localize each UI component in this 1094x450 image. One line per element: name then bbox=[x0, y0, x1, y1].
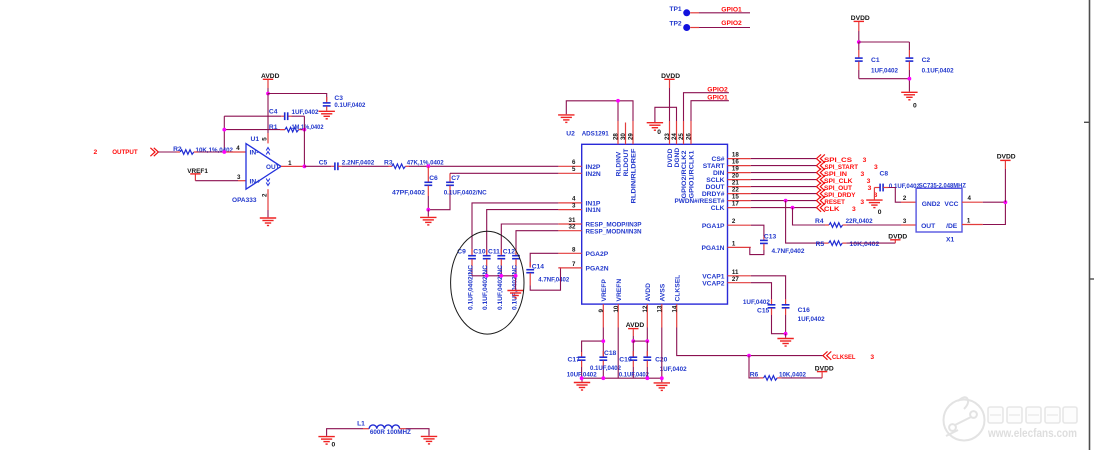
wire net SPI_START bbox=[751, 161, 878, 170]
node R1 left junction bbox=[222, 128, 226, 132]
wire R2 to op-amp IN- bbox=[194, 151, 246, 153]
svg-text:RESET: RESET bbox=[824, 199, 845, 206]
capacitor C5 bbox=[319, 159, 375, 170]
svg-text:C1: C1 bbox=[871, 57, 880, 64]
svg-text:0.1UF,0402/NC: 0.1UF,0402/NC bbox=[444, 189, 487, 196]
svg-text:R5: R5 bbox=[816, 241, 825, 248]
svg-text:3: 3 bbox=[870, 354, 874, 361]
wire R3 to IC pin 6 bbox=[405, 165, 558, 167]
sheet border line bbox=[1084, 0, 1094, 450]
svg-text:15: 15 bbox=[732, 194, 739, 201]
test point TP2 bbox=[669, 21, 699, 32]
wire RESP_MODN row to C12 bbox=[516, 231, 558, 255]
wire C5 to R3 bbox=[338, 165, 392, 167]
capacitor C16 bbox=[782, 305, 825, 334]
wire GPIO2 net above U2 bbox=[684, 87, 729, 122]
svg-text:DRDY#: DRDY# bbox=[702, 191, 725, 198]
svg-text:AVSS: AVSS bbox=[659, 283, 666, 301]
wire IN1P row to C9 bbox=[472, 203, 558, 255]
svg-text:C14: C14 bbox=[532, 263, 545, 270]
U2 bottom pin names rotated bbox=[601, 275, 681, 302]
power VREF1 bbox=[187, 168, 208, 181]
svg-text:IN-: IN- bbox=[250, 150, 259, 157]
svg-text:17: 17 bbox=[732, 201, 739, 208]
wire feedback vertical bbox=[223, 116, 225, 152]
capacitor C2 bbox=[906, 57, 954, 79]
svg-text:11: 11 bbox=[732, 269, 739, 276]
wire AVSS to rail bbox=[661, 328, 663, 379]
node R1 right junction bbox=[303, 128, 307, 132]
svg-text:13: 13 bbox=[657, 305, 664, 312]
svg-text:2: 2 bbox=[732, 218, 736, 225]
svg-text:10K,1%,0402: 10K,1%,0402 bbox=[196, 147, 234, 154]
svg-text:TP2: TP2 bbox=[669, 21, 682, 28]
svg-text:U2: U2 bbox=[566, 131, 575, 138]
node DVDD C1 junction bbox=[857, 40, 861, 44]
node rail C12 junction bbox=[514, 274, 518, 278]
capacitor C13 bbox=[760, 233, 805, 255]
svg-text:1UF,0402: 1UF,0402 bbox=[871, 68, 898, 75]
svg-text:SPI_IN: SPI_IN bbox=[824, 171, 847, 178]
svg-text:1UF,0402: 1UF,0402 bbox=[743, 299, 770, 306]
svg-text:C3: C3 bbox=[334, 95, 343, 102]
svg-text:2.2NF,0402: 2.2NF,0402 bbox=[342, 160, 375, 167]
power DVDD at R6 bbox=[815, 365, 834, 372]
svg-text:GPIO2/RCLK2: GPIO2/RCLK2 bbox=[681, 150, 688, 198]
svg-text:SPI_OUT: SPI_OUT bbox=[824, 185, 853, 192]
watermark elecfans logo bbox=[944, 397, 985, 440]
wire net RESET bbox=[751, 196, 865, 205]
svg-text:SPI_CLK: SPI_CLK bbox=[824, 178, 853, 185]
svg-text:DOUT: DOUT bbox=[706, 184, 726, 191]
svg-text:0.1UF,0402/NC: 0.1UF,0402/NC bbox=[468, 265, 475, 310]
svg-text:10K,0402: 10K,0402 bbox=[849, 241, 879, 248]
svg-text:CLK: CLK bbox=[824, 206, 840, 213]
svg-text:C12: C12 bbox=[503, 248, 516, 255]
wire AVDD supply vertical to op-amp pin 5 bbox=[267, 94, 269, 144]
svg-text:OUT: OUT bbox=[266, 164, 280, 171]
svg-text:4.7NF,0402: 4.7NF,0402 bbox=[538, 277, 569, 284]
wire OUTPUT to R2 bbox=[158, 151, 180, 153]
wire C1 C2 top rail bbox=[859, 42, 910, 58]
capacitor C1 bbox=[855, 57, 898, 79]
svg-text:32: 32 bbox=[569, 224, 576, 231]
node rail AVSS junction bbox=[660, 376, 664, 380]
svg-text:RLDINV: RLDINV bbox=[616, 151, 623, 176]
power AVDD bottom bbox=[626, 322, 645, 341]
node C6 C7 ground junction bbox=[426, 208, 430, 217]
svg-text:1: 1 bbox=[967, 217, 971, 224]
ground under AVSS bbox=[654, 383, 670, 391]
wire R4 to X1 OUT bbox=[843, 218, 917, 225]
svg-text:1: 1 bbox=[288, 160, 292, 167]
svg-text:3: 3 bbox=[874, 164, 878, 171]
svg-text:START: START bbox=[703, 163, 726, 170]
wire RESP_MODP row to C11 bbox=[501, 224, 558, 255]
svg-text:AVDD: AVDD bbox=[645, 283, 652, 302]
node C6 top junction bbox=[426, 164, 430, 168]
node X1 VCC junction bbox=[1004, 200, 1008, 204]
wire net SPI_DRDY bbox=[751, 189, 878, 198]
svg-text:26: 26 bbox=[686, 133, 693, 140]
wire C4 row bbox=[224, 115, 304, 117]
svg-text:RLDOUT: RLDOUT bbox=[623, 148, 630, 177]
ground left of rail bbox=[574, 383, 590, 391]
wire OUT to C5 bbox=[304, 165, 334, 167]
wire GPIO1 net above U2 bbox=[691, 94, 729, 121]
svg-text:SC735-2.048MHZ: SC735-2.048MHZ bbox=[919, 182, 966, 189]
svg-text:47PF,0402: 47PF,0402 bbox=[392, 189, 425, 196]
svg-text:27: 27 bbox=[732, 276, 739, 283]
svg-text:0: 0 bbox=[657, 129, 661, 136]
wire op-amp OUT bbox=[281, 160, 304, 167]
power DVDD above C1 C2 bbox=[851, 15, 870, 42]
svg-text:C7: C7 bbox=[451, 175, 460, 182]
svg-text:PGA1P: PGA1P bbox=[702, 223, 725, 230]
svg-text:2: 2 bbox=[94, 149, 98, 156]
wire net SPI_IN bbox=[751, 168, 865, 177]
svg-text:C13: C13 bbox=[764, 233, 777, 240]
ground L1 left bbox=[318, 437, 335, 449]
svg-text:www.elecfans.com: www.elecfans.com bbox=[987, 426, 1077, 440]
wire PGA1P to C13 bbox=[751, 225, 764, 240]
svg-text:6: 6 bbox=[572, 159, 576, 166]
wire C14 to PGA2N row bbox=[530, 268, 560, 290]
wire C13 to PGA1N bbox=[750, 247, 764, 254]
svg-text:RLDIN/RLDREF: RLDIN/RLDREF bbox=[631, 149, 638, 204]
wire R1 row bbox=[224, 129, 304, 131]
svg-text:VREFN: VREFN bbox=[616, 279, 623, 302]
wire VREF1 to op-amp IN+ bbox=[195, 174, 246, 181]
svg-text:SCLK: SCLK bbox=[706, 177, 724, 184]
svg-text:0: 0 bbox=[878, 209, 882, 216]
node C15 C16 ground junction bbox=[784, 332, 788, 338]
U2 left pin numbers bbox=[569, 159, 576, 268]
capacitor C17 bbox=[567, 357, 597, 379]
svg-text:RESP_MODN/IN3N: RESP_MODN/IN3N bbox=[586, 229, 642, 236]
watermark chinese characters bbox=[988, 407, 1077, 423]
wire net GPIO2 top bbox=[699, 20, 750, 28]
svg-text:R2: R2 bbox=[173, 146, 182, 153]
wire L1 left bbox=[327, 429, 369, 436]
svg-text:1UF,0402: 1UF,0402 bbox=[798, 316, 825, 323]
svg-text:9: 9 bbox=[598, 309, 605, 313]
svg-text:DVDD: DVDD bbox=[997, 153, 1016, 160]
node rail C11 junction bbox=[499, 274, 503, 278]
svg-text:CLKSEL: CLKSEL bbox=[832, 354, 856, 361]
svg-text:7: 7 bbox=[572, 261, 576, 268]
power DVDD top right bbox=[997, 153, 1016, 202]
wire CLKSEL net bbox=[677, 328, 875, 361]
node VREFP junction bbox=[601, 339, 605, 343]
wire feedback right vertical bbox=[303, 116, 305, 166]
node CLKSEL junction bbox=[747, 354, 751, 358]
svg-text:19: 19 bbox=[732, 166, 739, 173]
svg-text:IN+: IN+ bbox=[250, 179, 261, 186]
svg-text:/DE: /DE bbox=[946, 223, 958, 230]
U2 bottom pin numbers rotated bbox=[598, 305, 678, 312]
svg-text:OUT: OUT bbox=[921, 223, 936, 230]
resistor R5 bbox=[816, 241, 880, 248]
U2 top pin stubs bbox=[618, 121, 691, 144]
svg-text:16: 16 bbox=[732, 159, 739, 166]
wire net CLK bbox=[751, 203, 856, 212]
svg-text:5: 5 bbox=[572, 166, 576, 173]
off-page connector OUTPUT bbox=[94, 148, 159, 156]
svg-text:0.1UF,0402: 0.1UF,0402 bbox=[619, 372, 649, 379]
ground under C8 bbox=[866, 200, 882, 216]
svg-text:R3: R3 bbox=[384, 160, 393, 167]
capacitor C7 bbox=[428, 173, 487, 209]
ellipse highlight around C9-C12 bbox=[451, 231, 524, 334]
node AVDD junction bbox=[266, 92, 270, 96]
U2 left pin stubs bbox=[558, 166, 581, 268]
svg-text:CLKSEL: CLKSEL bbox=[674, 275, 681, 302]
node CLK junction bbox=[791, 206, 795, 210]
U2 top pin numbers rotated bbox=[613, 133, 693, 140]
node op-amp IN- junction bbox=[222, 145, 240, 154]
wire X1 /DE to DVDD bbox=[962, 202, 1005, 224]
svg-text:25: 25 bbox=[678, 133, 685, 140]
svg-text:4: 4 bbox=[968, 195, 972, 202]
U2 right pin stubs bbox=[728, 159, 751, 283]
svg-text:PGA2P: PGA2P bbox=[586, 251, 609, 258]
svg-text:14: 14 bbox=[671, 305, 678, 312]
svg-text:GPIO2: GPIO2 bbox=[707, 87, 728, 94]
svg-text:GPIO1: GPIO1 bbox=[721, 7, 742, 14]
resistor R4 bbox=[815, 218, 873, 227]
node rail C17 junction bbox=[580, 376, 584, 380]
watermark url text bbox=[987, 426, 1077, 440]
ground DGND bbox=[647, 123, 663, 136]
svg-text:5: 5 bbox=[262, 137, 269, 141]
svg-text:3: 3 bbox=[237, 174, 241, 181]
wire op-amp V- to ground bbox=[267, 189, 269, 217]
wire X1 VCC to DVDD bbox=[962, 195, 1005, 202]
wire net SPI_CLK bbox=[751, 175, 871, 184]
svg-text:DGND: DGND bbox=[674, 148, 681, 168]
svg-text:1M,1%,0402: 1M,1%,0402 bbox=[292, 124, 324, 131]
node C2 ground junction bbox=[908, 77, 912, 81]
wire RLD pins rail bbox=[566, 101, 633, 121]
svg-text:0.1UF,0402: 0.1UF,0402 bbox=[922, 68, 954, 75]
wire C1 C2 bottom rail bbox=[859, 79, 910, 92]
svg-text:C16: C16 bbox=[798, 307, 811, 314]
svg-text:600R 100MHZ: 600R 100MHZ bbox=[370, 429, 411, 436]
wire RESET to R5 bbox=[786, 201, 829, 244]
svg-text:28: 28 bbox=[613, 133, 620, 140]
oscillator X1 SC735 bbox=[916, 182, 966, 243]
svg-text:R1: R1 bbox=[269, 124, 278, 131]
svg-text:U1: U1 bbox=[251, 136, 260, 143]
resistor R3 bbox=[384, 160, 444, 169]
svg-text:DVDD: DVDD bbox=[667, 148, 674, 167]
svg-text:SPI_CS: SPI_CS bbox=[824, 157, 853, 164]
svg-text:R6: R6 bbox=[750, 372, 759, 379]
wire net SPI_CS bbox=[751, 154, 867, 163]
ground under C15 C16 bbox=[777, 339, 793, 347]
capacitor C4 bbox=[269, 109, 319, 121]
op-amp U1 OPA333 bbox=[232, 136, 281, 204]
svg-text:3: 3 bbox=[863, 157, 867, 164]
svg-text:L1: L1 bbox=[357, 420, 365, 427]
wire ground rail bottom bbox=[582, 378, 662, 382]
power DVDD at R5 bbox=[888, 234, 907, 241]
svg-text:4.7NF,0402: 4.7NF,0402 bbox=[772, 248, 805, 255]
wire C8 to X1 GND2 bbox=[889, 188, 917, 203]
svg-text:C8: C8 bbox=[880, 171, 889, 178]
IC U2 ADS1291 body bbox=[566, 131, 727, 305]
test point TP1 bbox=[669, 6, 699, 16]
svg-text:VCC: VCC bbox=[944, 201, 958, 208]
wire C8 left to ground bbox=[873, 188, 875, 200]
wire PGA2P row to C14 bbox=[530, 253, 558, 267]
capacitor C10 bbox=[473, 248, 490, 310]
U2 right pin names bbox=[675, 156, 726, 287]
wire VCAP2 to C15 bbox=[751, 283, 772, 305]
capacitor C11 bbox=[488, 248, 505, 310]
svg-text:22R,0402: 22R,0402 bbox=[846, 218, 873, 225]
svg-text:GPIO1/RCLK1: GPIO1/RCLK1 bbox=[689, 150, 696, 198]
resistor R1 bbox=[269, 124, 324, 132]
svg-text:IN2N: IN2N bbox=[586, 171, 601, 178]
svg-text:VREFP: VREFP bbox=[601, 279, 608, 302]
svg-text:3: 3 bbox=[903, 218, 907, 225]
svg-text:3: 3 bbox=[852, 206, 856, 213]
svg-text:C11: C11 bbox=[488, 248, 500, 255]
resistor R2 bbox=[173, 146, 233, 154]
svg-text:PGA2N: PGA2N bbox=[586, 266, 609, 273]
node OUT junction bbox=[303, 165, 307, 169]
U2 right pin numbers bbox=[732, 152, 739, 283]
svg-text:3: 3 bbox=[860, 199, 864, 206]
svg-text:3: 3 bbox=[868, 185, 872, 192]
node RESET junction bbox=[784, 199, 788, 203]
svg-text:24: 24 bbox=[671, 133, 678, 140]
svg-text:X1: X1 bbox=[946, 236, 954, 243]
svg-text:1: 1 bbox=[732, 240, 736, 247]
svg-text:0.1UF,0402: 0.1UF,0402 bbox=[334, 102, 365, 109]
wire net SPI_OUT bbox=[751, 182, 872, 191]
svg-text:DIN: DIN bbox=[713, 170, 725, 177]
svg-text:SPI_DRDY: SPI_DRDY bbox=[824, 192, 856, 199]
capacitor C12 bbox=[503, 248, 520, 310]
wire L1 right bbox=[400, 429, 429, 436]
svg-text:CLK: CLK bbox=[711, 205, 725, 212]
svg-text:1UF,0402: 1UF,0402 bbox=[292, 109, 319, 116]
svg-text:GPIO1: GPIO1 bbox=[707, 94, 728, 101]
svg-text:OPA333: OPA333 bbox=[232, 197, 257, 204]
wire C9-C12 common rail bbox=[472, 276, 516, 290]
svg-text:3: 3 bbox=[867, 178, 871, 185]
wire DGND pin to ground bbox=[655, 107, 677, 122]
svg-text:47K,1%,0402: 47K,1%,0402 bbox=[407, 160, 444, 167]
svg-text:C4: C4 bbox=[269, 109, 278, 116]
svg-text:23: 23 bbox=[664, 133, 671, 140]
inductor L1 bbox=[357, 420, 411, 436]
svg-text:0: 0 bbox=[332, 442, 336, 449]
svg-text:0.1UF,0402/NC: 0.1UF,0402/NC bbox=[482, 265, 489, 310]
svg-text:3: 3 bbox=[572, 202, 576, 209]
U2 bottom pin stubs bbox=[603, 304, 676, 327]
wire R5 to DVDD bbox=[842, 240, 895, 243]
wire VREFN to rail bbox=[617, 328, 619, 379]
node AVDD symbol junction bbox=[631, 339, 635, 343]
capacitor C14 bbox=[526, 263, 569, 285]
svg-text:C15: C15 bbox=[757, 307, 770, 314]
power AVDD (op-amp supply) bbox=[261, 73, 280, 94]
svg-text:0: 0 bbox=[913, 103, 917, 110]
svg-text:30: 30 bbox=[620, 133, 627, 140]
capacitor C18 bbox=[590, 350, 621, 378]
wire net GPIO1 top bbox=[699, 7, 750, 14]
svg-text:GPIO2: GPIO2 bbox=[721, 20, 742, 27]
svg-text:GND2: GND2 bbox=[922, 201, 941, 208]
node RLDINV junction bbox=[616, 99, 620, 103]
svg-text:AVDD: AVDD bbox=[626, 322, 645, 329]
svg-text:IN1N: IN1N bbox=[586, 207, 601, 214]
svg-text:C10: C10 bbox=[473, 248, 486, 255]
ground under C9-C12 rail bbox=[507, 291, 523, 299]
ground under C3 bbox=[319, 111, 335, 119]
power DVDD above U2 bbox=[661, 73, 680, 121]
ground RLD rail bbox=[558, 115, 574, 123]
svg-text:CS#: CS# bbox=[711, 156, 724, 163]
svg-text:TP1: TP1 bbox=[669, 6, 682, 13]
svg-text:C19: C19 bbox=[619, 357, 632, 364]
wire VREFP to C17 C18 bbox=[582, 328, 604, 357]
svg-text:C17: C17 bbox=[568, 357, 581, 364]
svg-text:0.1UF,0402/NC: 0.1UF,0402/NC bbox=[512, 265, 519, 310]
capacitor C9 bbox=[457, 248, 476, 310]
wire CLK to R4 bbox=[793, 208, 830, 225]
capacitor C8 bbox=[874, 171, 920, 192]
wire R6 to DVDD bbox=[777, 372, 822, 378]
capacitor C20 bbox=[643, 341, 686, 378]
svg-text:IN2P: IN2P bbox=[586, 164, 601, 171]
capacitor C15 bbox=[743, 299, 786, 334]
svg-text:C9: C9 bbox=[457, 248, 466, 255]
wire AVDD rail bbox=[633, 328, 647, 342]
wire IN1N row to C10 bbox=[487, 210, 559, 255]
ground op-amp bbox=[260, 218, 276, 226]
svg-text:8: 8 bbox=[572, 246, 576, 253]
svg-text:OUTPUT: OUTPUT bbox=[112, 149, 138, 156]
U2 top pin names rotated bbox=[616, 148, 696, 204]
svg-text:C6: C6 bbox=[429, 175, 438, 182]
svg-text:R4: R4 bbox=[815, 218, 824, 225]
capacitor C3 bbox=[323, 95, 366, 111]
wire C7 to IC pin 5 bbox=[450, 172, 558, 174]
wire VCAP1 to C16 bbox=[751, 276, 786, 305]
capacitor C19 bbox=[619, 341, 649, 378]
svg-text:0.1UF,0402/NC: 0.1UF,0402/NC bbox=[497, 265, 504, 310]
node rail C18 junction bbox=[601, 376, 605, 380]
svg-text:4: 4 bbox=[236, 145, 240, 152]
svg-text:22: 22 bbox=[732, 187, 739, 194]
svg-text:C2: C2 bbox=[922, 57, 931, 64]
svg-text:C5: C5 bbox=[319, 159, 328, 166]
ground L1 right bbox=[421, 436, 437, 444]
resistor R6 bbox=[750, 372, 807, 381]
svg-text:C18: C18 bbox=[604, 350, 617, 357]
wire CLKSEL to R6 bbox=[749, 356, 764, 378]
svg-text:VCAP2: VCAP2 bbox=[702, 280, 725, 287]
node AVDD pin junction bbox=[645, 339, 649, 343]
svg-text:ADS1291: ADS1291 bbox=[582, 131, 609, 138]
svg-text:2: 2 bbox=[903, 195, 907, 202]
svg-text:0.1UF,0402: 0.1UF,0402 bbox=[590, 365, 621, 372]
